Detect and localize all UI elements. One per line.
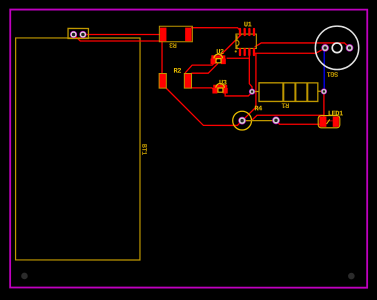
wire R2 right pad to U2 pad lower: [191, 63, 218, 73]
resistor R1 body: [259, 83, 318, 102]
regulator U2 pad right: [221, 59, 226, 65]
svg-text:LED1: LED1: [328, 110, 343, 118]
regulator U2 box silk: [216, 59, 221, 63]
regulator U3 pad right: [223, 88, 228, 94]
svg-text:U2: U2: [216, 49, 224, 57]
resistor R3 outline: [159, 26, 192, 42]
LED1 pad 2: [333, 116, 339, 126]
regulator U2 dome silk: [214, 54, 223, 58]
regulator U2 pad left: [211, 59, 216, 65]
speaker SG1 pad 2: [346, 44, 353, 51]
regulator U3 box silk: [218, 88, 223, 92]
R4 lead: [244, 120, 273, 122]
wire R2 left pad to R4 left pad: [166, 88, 242, 125]
svg-text:R1: R1: [282, 100, 290, 108]
battery BT1 outline: [16, 38, 140, 260]
resistor R3 pad 2: [185, 28, 191, 42]
svg-text:U3: U3: [219, 80, 227, 88]
wire blue SG1 left pad to via2 (bottom layer): [323, 48, 326, 91]
wire R3 right pad to U1 pin1: [191, 28, 241, 31]
resistor R2 pad 1 with outline: [159, 73, 166, 88]
IC U1 pin1 dot: [235, 50, 237, 52]
svg-text:SG1: SG1: [327, 69, 338, 77]
wire between LED1 pads: [326, 120, 332, 122]
connector P1 box: [68, 28, 88, 38]
IC U1 top pads: [239, 28, 255, 36]
svg-text:R3: R3: [169, 40, 177, 48]
via1: [249, 89, 255, 95]
wire U1 pin4 to SG1 left pad (lower): [254, 48, 325, 53]
connector pad 2: [80, 31, 87, 38]
wire U2 right pad to U1 pin3: [227, 57, 250, 59]
svg-text:U1: U1: [244, 21, 252, 29]
resistor R4 silk circle: [233, 111, 252, 130]
wire R4 right pad up to LED net: [242, 115, 324, 120]
via2: [321, 89, 327, 95]
wire U3 right pad to via1: [225, 92, 252, 96]
IC U1 body: [236, 34, 256, 48]
svg-text:R2: R2: [174, 68, 182, 76]
resistor R1 band 3: [306, 83, 308, 101]
regulator U2 tab pad: [211, 55, 225, 58]
LED1 symbol silk: [327, 119, 330, 124]
wire conn right pad to R3 left pad: [83, 33, 164, 35]
LED1 silk outline: [318, 116, 340, 128]
wire R2 right pad to U3 left pad: [190, 88, 215, 91]
speaker SG1 circle: [315, 26, 358, 69]
regulator U3 pad left: [212, 88, 217, 94]
regulator U3 tab pad: [213, 85, 227, 88]
resistor R2 pad 2 with outline: [184, 73, 191, 88]
mounting hole right: [348, 273, 355, 280]
R4 pad 2: [272, 117, 279, 124]
R4 pad 1: [239, 117, 246, 124]
svg-text:BT1: BT1: [139, 144, 147, 155]
wire via2 down to LED1 left pad: [323, 91, 325, 121]
mounting hole left: [21, 273, 28, 280]
speaker SG1 center hole: [332, 43, 342, 53]
wire conn left pad to R2 left pad: [74, 34, 163, 75]
svg-text:R4: R4: [254, 105, 262, 113]
IC U1 wave marker: [237, 35, 239, 49]
wire U1 to SG1 right pad (upper): [255, 43, 350, 48]
connector pad 1: [70, 31, 77, 38]
wire branch down to R4 left pad: [242, 53, 256, 121]
wire U1 pin1 to U2 left pad (diagonal): [213, 34, 241, 62]
speaker SG1 pad 1: [322, 44, 329, 51]
IC U1 bottom pads: [239, 48, 255, 56]
LED1 pad 1: [319, 116, 326, 126]
resistor R1 band 2: [294, 83, 296, 101]
resistor R3 pad 1: [160, 28, 166, 42]
wire R4 right pad to LED1 left pad: [276, 121, 322, 124]
resistor R1 right lead: [318, 90, 321, 92]
wire R2 right pad to U2 left pad upper: [185, 61, 216, 73]
resistor R1 left lead: [252, 91, 259, 93]
wire U1 pin3 down to via1: [249, 56, 252, 92]
resistor R1 band 1: [282, 83, 284, 101]
regulator U3 dome silk: [216, 84, 225, 88]
